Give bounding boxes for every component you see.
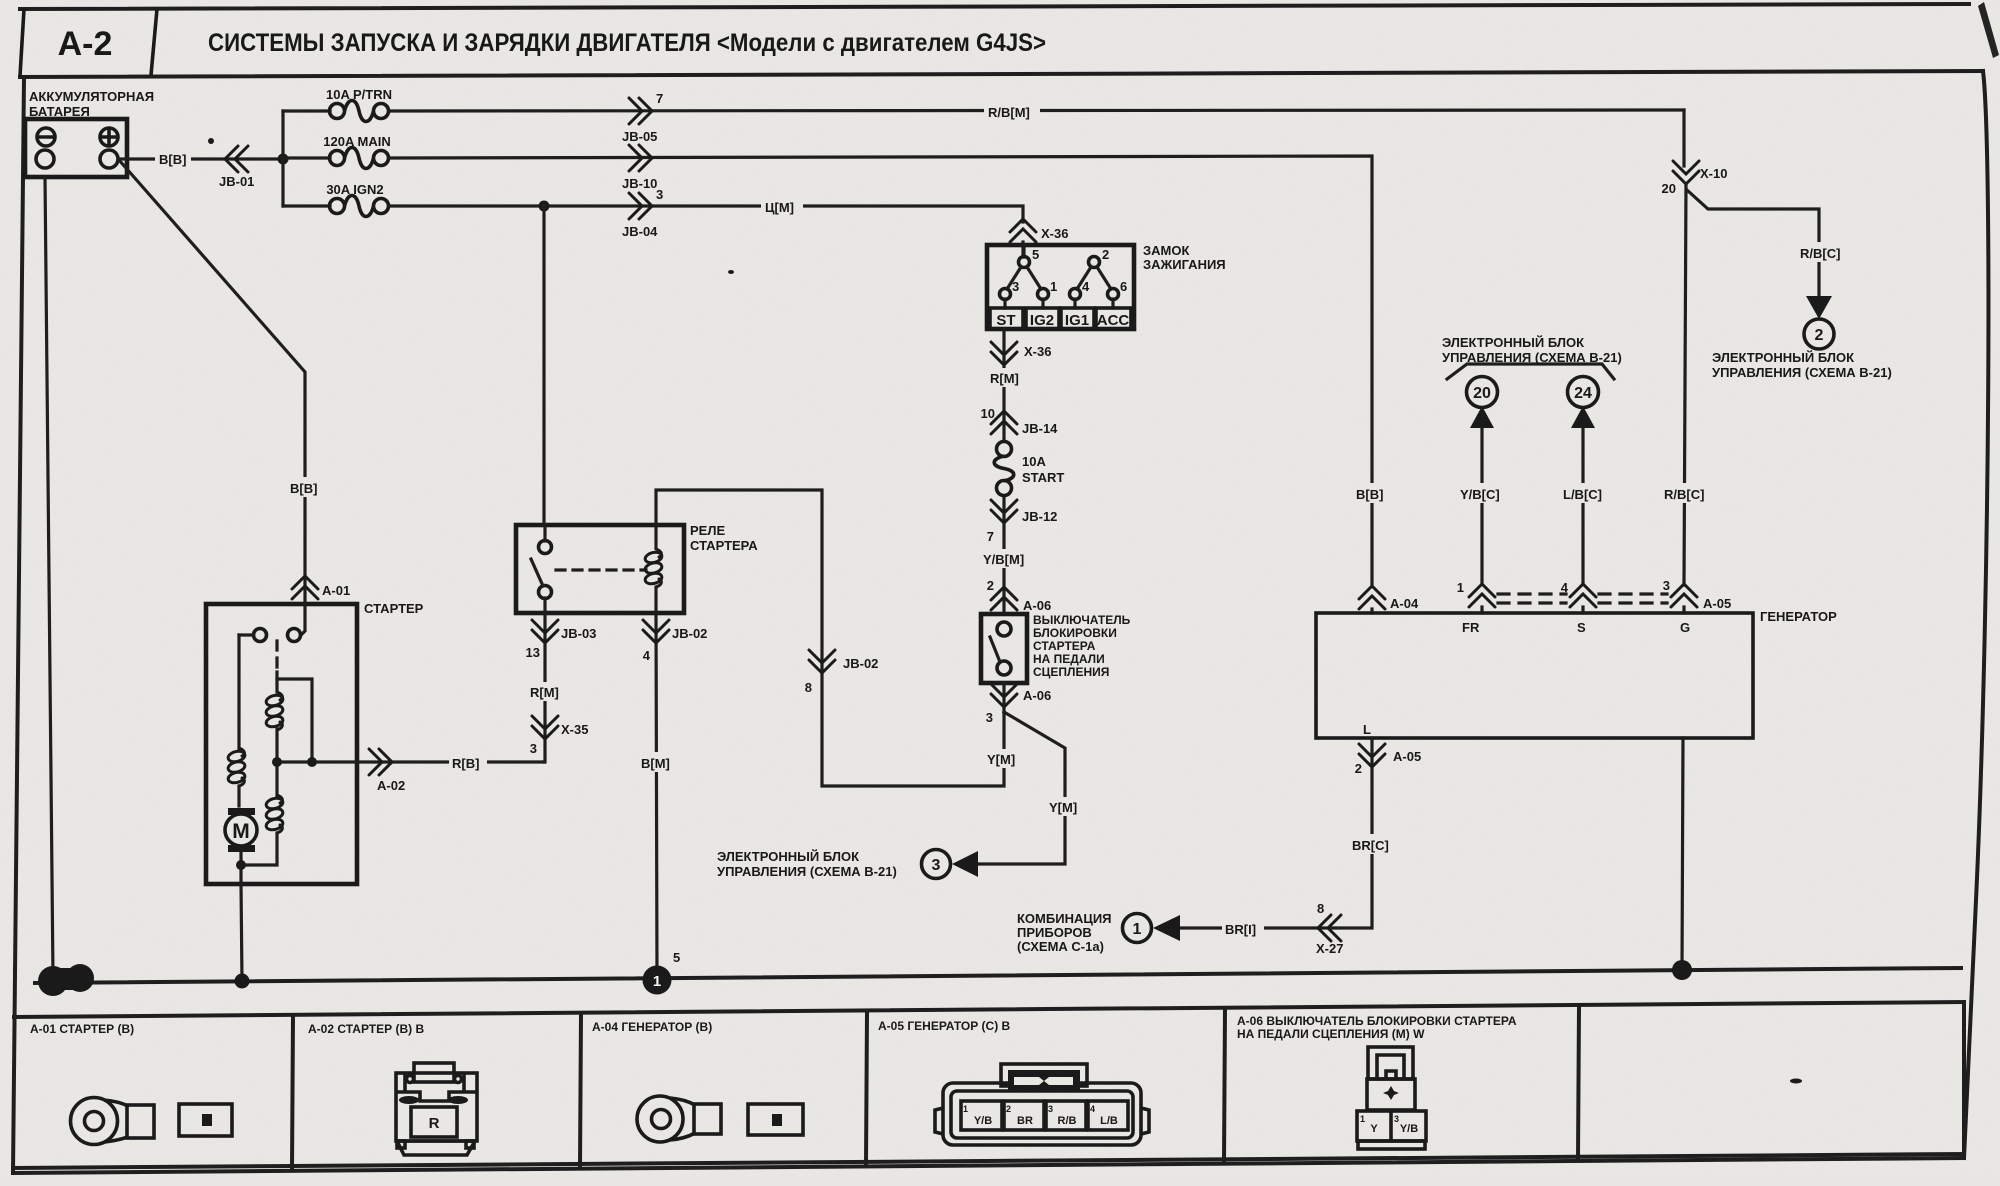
diagram frame right border (page curve) <box>1964 71 1988 1158</box>
icon A-01 terminal tag B <box>179 1104 232 1136</box>
wire branch X-10 to ECU ref 2 <box>1687 190 1819 297</box>
connector X-36 lower <box>991 342 1017 365</box>
wire X-36 into ignition switch <box>1021 242 1024 257</box>
table divider 1 <box>292 1016 293 1169</box>
page outer top border <box>20 4 1969 9</box>
wire label R[M] <box>988 368 1024 387</box>
connector table bottom border <box>13 1154 1964 1168</box>
connector JB-02 pin 8 <box>809 650 835 673</box>
wire battery negative ground <box>45 177 53 977</box>
header title box (A-2 cell) <box>20 9 24 76</box>
connector JB-03 pin 13 <box>532 620 558 643</box>
scan speckle marks <box>208 138 214 144</box>
wire Y[M] to relay coil branch <box>656 490 1004 786</box>
connector X-35 pin 3 <box>532 716 558 739</box>
wire label Y/B[M] <box>981 549 1031 568</box>
fuse F2 120A MAIN <box>330 148 389 169</box>
arrow to ECU ref 3 <box>952 851 978 877</box>
wire starter ground <box>241 884 242 981</box>
fuse F3 30A IGN2 <box>330 196 389 217</box>
ground blob battery negative <box>38 964 94 996</box>
wire label R/B[M] <box>984 100 1040 121</box>
wire fuse2 to generator corner <box>389 156 1372 585</box>
arrow up to ref 24 <box>1571 406 1595 428</box>
connector JB-14 pin 10 <box>991 411 1017 434</box>
connector A-04 generator B <box>1359 586 1385 609</box>
wire Y[M] branch to ECU ref 3 <box>978 712 1065 864</box>
wire label B[B] generator feed <box>1352 483 1392 503</box>
connector X-27 pin 8 <box>1318 915 1341 941</box>
wire fuse3 to ignition switch corner <box>389 206 1023 222</box>
wire Y/B[C] from generator FR <box>1480 428 1483 584</box>
table divider 2 <box>580 1014 581 1167</box>
shielded pair dashes FR-S <box>1498 592 1566 595</box>
table divider 4 <box>1224 1009 1225 1162</box>
wire label Y[M] <box>984 749 1022 768</box>
wire ignition feed to relay switch <box>542 206 545 525</box>
arrow up to ref 20 <box>1470 406 1494 428</box>
connector JB-10 <box>629 145 652 171</box>
starter relay K1 <box>516 525 684 613</box>
diagram frame left border <box>13 77 24 1173</box>
wire clutch switch down <box>1002 683 1005 712</box>
wire label B[B] starter feed <box>287 477 325 497</box>
shielded pair dashes S-G <box>1599 592 1667 595</box>
arrow down to ECU ref 2 <box>1806 296 1832 319</box>
wire generator L down <box>1180 738 1372 928</box>
wire label B[M] <box>638 752 678 772</box>
connector X-36 upper <box>1010 219 1036 242</box>
wire relay coil to ground <box>656 613 657 977</box>
starter M1 box <box>206 604 357 884</box>
wire generator internal ground <box>1682 738 1683 970</box>
ground point 1 (pin 5) <box>643 966 672 995</box>
wire relay switch down to starter <box>544 613 545 762</box>
table right border <box>1962 1002 1966 1154</box>
arrow to combination meter ref 1 <box>1153 915 1180 941</box>
wire label R/B[C] generator <box>1662 483 1710 503</box>
node fuse feed junction <box>278 154 289 165</box>
wire R/B[C] to generator G <box>1684 184 1686 585</box>
connector A-02 <box>369 749 392 775</box>
connector A-06 pin 2 upper <box>991 587 1017 610</box>
node generator ground junction <box>1672 960 1692 980</box>
connector JB-12 pin 7 <box>991 500 1017 523</box>
icon A-02 connector housing <box>396 1063 477 1155</box>
wire to fuse 1 <box>283 109 330 112</box>
connector A-05 pin 1 FR <box>1469 584 1495 607</box>
table divider 5 <box>1578 1006 1579 1159</box>
table divider 3 <box>866 1012 867 1165</box>
connector JB-05 pin 7 <box>629 98 652 124</box>
wire label BR[C] <box>1350 834 1394 854</box>
node relay feed junction <box>539 201 550 212</box>
connector JB-02 pin 4 <box>643 620 669 643</box>
wire R[B] horizontal to starter <box>360 760 544 763</box>
icon A-04 terminal tag B <box>748 1104 803 1135</box>
wire R/B[M] fuse1 to right corner <box>389 110 1684 111</box>
icon A-05 generator connector <box>935 1064 1149 1145</box>
node ref circle 3 (ЭБУ схема B-21) <box>922 850 951 879</box>
wire L/B[C] from generator S <box>1581 428 1584 584</box>
node ref circle 20 <box>1467 377 1498 408</box>
connector table top border <box>14 1002 1964 1017</box>
fuse F4 10A START <box>994 442 1064 496</box>
connector A-01 <box>292 576 318 599</box>
wire battery positive to fuse junction <box>118 157 283 160</box>
wire label Ц[M] <box>761 195 803 216</box>
wire to fuse 3 <box>283 204 330 207</box>
node ref circle 1 (комбинация приборов) <box>1123 914 1152 943</box>
header bottom rule <box>20 71 1983 77</box>
wire label BR[I] <box>1222 918 1264 938</box>
clutch pedal starter interlock switch SW2 <box>981 614 1027 683</box>
node starter ground junction <box>235 974 250 989</box>
icon A-06 clutch switch connector <box>1357 1047 1426 1149</box>
wire label Y[M] branch <box>1046 797 1084 816</box>
generator G1 box <box>1316 613 1753 738</box>
wire label R[M] relay <box>527 682 565 701</box>
connector A-05 pin 2 L <box>1359 744 1385 767</box>
connector A-06 pin 3 lower <box>991 684 1017 707</box>
icon A-04 ring terminal <box>637 1096 721 1142</box>
wire battery diagonal to starter <box>119 160 305 604</box>
ignition switch SW1 (замок зажигания) <box>987 245 1134 329</box>
wire label R[B] <box>449 752 487 772</box>
icon A-01 ring terminal <box>71 1098 155 1145</box>
connector JB-04 pin 3 <box>629 193 652 219</box>
wire R/B top corner down to X-10 <box>1682 110 1685 166</box>
wire A-04 into generator <box>1370 609 1373 613</box>
connector A-05 pin 3 G <box>1671 584 1697 607</box>
page corner fold mark top-right <box>1978 2 1999 58</box>
fuse F1 10A P/TRN <box>330 101 389 122</box>
wire ST output down <box>1002 329 1005 614</box>
connector X-10 pin 20 <box>1673 161 1699 184</box>
battery BAT1 <box>25 119 127 177</box>
connector JB-01 <box>225 146 248 172</box>
ground rail <box>35 968 1961 983</box>
wire label R/B[C] branch <box>1797 242 1845 262</box>
diagram frame bottom border <box>13 1158 1964 1173</box>
ECU bracket above refs 20 and 24 <box>1447 364 1614 379</box>
wire label B[B] <box>155 148 191 168</box>
node ref circle 2 (ЭБУ схема B-21) <box>1804 319 1834 349</box>
node ref circle 24 <box>1568 377 1599 408</box>
wire fuse feed vertical <box>281 111 284 206</box>
wire to fuse 2 <box>283 156 330 159</box>
connector A-05 pin 4 S <box>1570 584 1596 607</box>
